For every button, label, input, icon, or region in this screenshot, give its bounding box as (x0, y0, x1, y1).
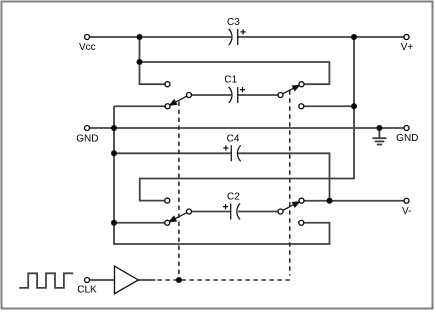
svg-text:C3: C3 (227, 17, 240, 28)
svg-text:GND: GND (76, 133, 98, 144)
svg-text:C1: C1 (224, 75, 237, 86)
svg-text:C2: C2 (227, 191, 240, 202)
svg-text:CLK: CLK (77, 285, 97, 296)
svg-text:C4: C4 (227, 133, 240, 144)
svg-text:GND: GND (396, 133, 418, 144)
svg-text:V-: V- (402, 206, 411, 217)
svg-text:Vcc: Vcc (79, 42, 96, 53)
svg-text:V+: V+ (401, 42, 414, 53)
